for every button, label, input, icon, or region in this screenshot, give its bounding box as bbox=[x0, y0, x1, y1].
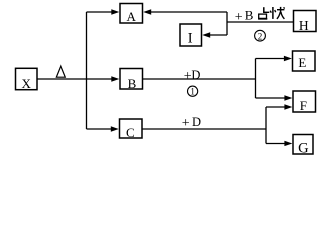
svg-text:I: I bbox=[188, 31, 193, 47]
wire V2 to F lower with arrow bbox=[266, 104, 292, 109]
node X bbox=[16, 68, 38, 91]
svg-text:+: + bbox=[182, 116, 190, 131]
svg-text:B: B bbox=[128, 76, 137, 91]
svg-text:F: F bbox=[300, 98, 307, 113]
wire V2 vertical bbox=[265, 107, 267, 144]
node A bbox=[120, 4, 143, 25]
node F bbox=[293, 91, 316, 113]
node G bbox=[293, 135, 313, 157]
node C bbox=[120, 119, 143, 140]
svg-text:E: E bbox=[298, 55, 306, 70]
svg-text:B: B bbox=[245, 8, 254, 23]
wire V1 vertical bbox=[255, 59, 257, 99]
node H bbox=[294, 11, 317, 33]
wire C to right branch V2 bbox=[143, 128, 267, 130]
wire junction to I with arrow bbox=[202, 32, 227, 37]
node B bbox=[120, 69, 143, 92]
svg-text:X: X bbox=[22, 76, 32, 91]
wire branch vertical bbox=[86, 12, 88, 129]
wire branch to B with arrow bbox=[87, 76, 120, 81]
svg-text:+: + bbox=[235, 10, 243, 25]
label circled 1 bbox=[188, 86, 198, 97]
wire V1 to F upper with arrow bbox=[256, 95, 293, 100]
svg-text:H: H bbox=[299, 18, 309, 33]
wire B to right branch V1 bbox=[143, 78, 256, 80]
wire junction to A with arrow bbox=[143, 9, 227, 14]
label ran (ignite char 2) bbox=[270, 7, 284, 19]
node E bbox=[293, 51, 316, 71]
wire junction vertical bbox=[226, 12, 228, 35]
label delta (heat) bbox=[56, 66, 65, 77]
svg-text:C: C bbox=[126, 125, 135, 140]
wire H to junction bbox=[227, 21, 294, 23]
svg-text:D: D bbox=[192, 115, 201, 129]
svg-text:G: G bbox=[298, 141, 309, 157]
wire X to branch point bbox=[38, 78, 87, 80]
wire V1 to E with arrow bbox=[256, 56, 292, 61]
svg-text:2: 2 bbox=[258, 31, 263, 41]
svg-text:D: D bbox=[191, 68, 200, 82]
label circled 2 bbox=[255, 30, 266, 41]
svg-text:A: A bbox=[127, 9, 137, 24]
node I bbox=[180, 24, 202, 47]
svg-text:1: 1 bbox=[190, 87, 195, 97]
label dian (ignite char 1) bbox=[258, 7, 269, 19]
wire branch to A with arrow bbox=[87, 9, 120, 14]
wire branch to C with arrow bbox=[87, 126, 119, 131]
wire V2 to G with arrow bbox=[266, 141, 292, 146]
